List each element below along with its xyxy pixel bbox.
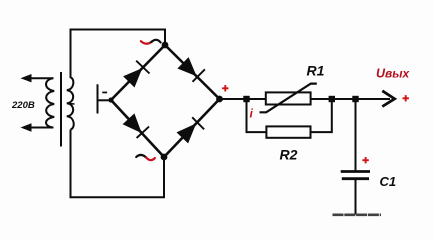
svg-text:220B: 220B xyxy=(11,100,35,111)
svg-text:R2: R2 xyxy=(280,147,298,163)
svg-text:C1: C1 xyxy=(380,174,397,189)
svg-text:Uвых: Uвых xyxy=(376,67,411,81)
svg-text:R1: R1 xyxy=(307,63,325,79)
